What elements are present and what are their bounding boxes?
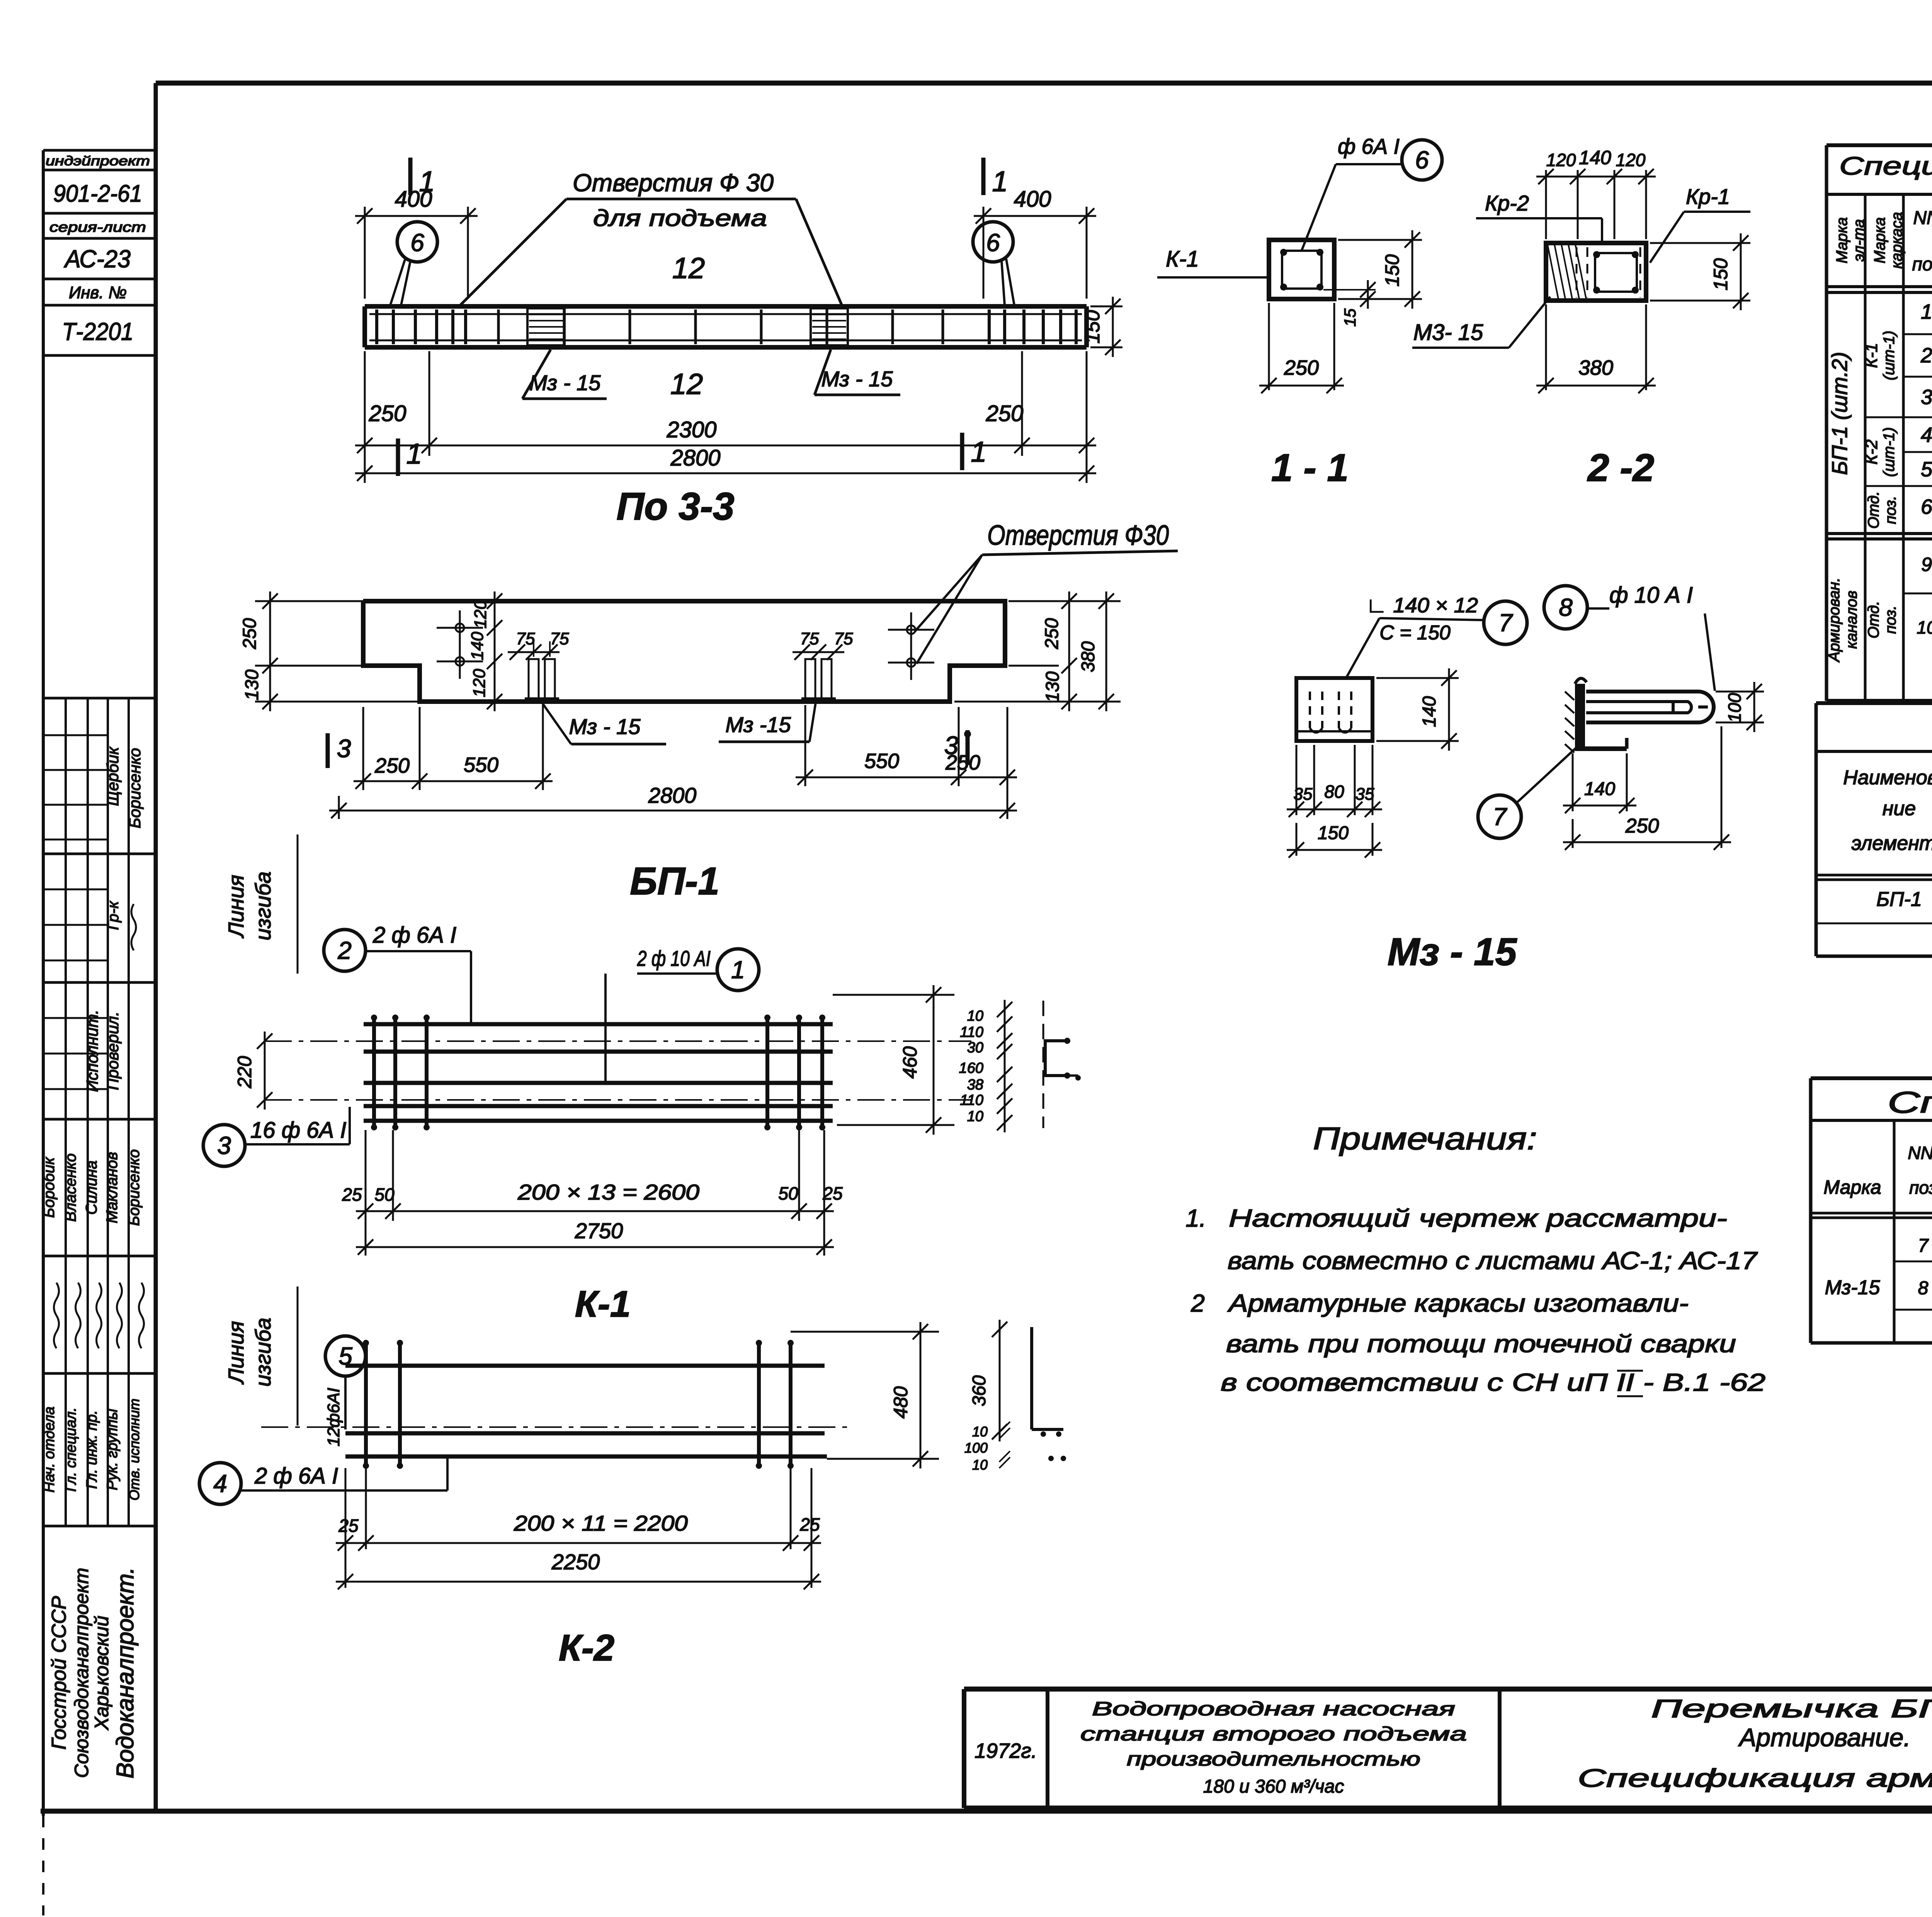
svg-text:Мз -15: Мз -15 [725, 712, 791, 737]
svg-text:380: 380 [1578, 356, 1613, 379]
svg-text:120: 120 [1546, 150, 1576, 170]
svg-text:2: 2 [337, 936, 352, 964]
svg-text:Линия: Линия [224, 875, 248, 938]
svg-text:поз: поз [1909, 1178, 1932, 1198]
svg-text:Гл. специал.: Гл. специал. [63, 1407, 79, 1492]
svg-text:1: 1 [1921, 300, 1932, 323]
svg-text:130: 130 [242, 670, 262, 700]
svg-text:поз.: поз. [1882, 605, 1899, 634]
svg-text:Спецификация арматуры на 1: Спецификация арматуры на 1 [1839, 151, 1932, 180]
svg-text:7: 7 [1918, 1236, 1929, 1256]
svg-text:75: 75 [550, 629, 569, 648]
svg-text:ф 6А I: ф 6А I [1338, 134, 1400, 158]
svg-text:Водопроводная насосная: Водопроводная насосная [1092, 1698, 1455, 1720]
svg-text:3: 3 [1921, 386, 1932, 409]
svg-text:производительностью: производительностью [1127, 1748, 1420, 1770]
svg-text:К-1: К-1 [1862, 343, 1881, 368]
svg-text:Настоящий чертеж рассматри-: Настоящий чертеж рассматри- [1229, 1204, 1727, 1232]
svg-text:75: 75 [800, 629, 819, 648]
svg-text:Т-2201: Т-2201 [62, 318, 134, 345]
svg-text:6: 6 [410, 229, 424, 257]
svg-text:2300: 2300 [666, 417, 716, 442]
svg-text:160: 160 [959, 1060, 983, 1076]
svg-text:Нач. отдела: Нач. отдела [41, 1407, 58, 1493]
svg-text:10: 10 [967, 1008, 983, 1024]
svg-text:Марка: Марка [1871, 217, 1888, 263]
svg-text:16 ф 6А I: 16 ф 6А I [250, 1118, 346, 1143]
svg-text:12: 12 [670, 368, 703, 401]
svg-text:5: 5 [1921, 458, 1932, 481]
svg-text:Инв. №: Инв. № [69, 283, 127, 302]
svg-text:БП-1 (шт.2): БП-1 (шт.2) [1827, 352, 1852, 475]
svg-text:БП-1: БП-1 [630, 860, 719, 903]
svg-text:Проверил.: Проверил. [104, 1011, 122, 1090]
svg-text:1: 1 [992, 165, 1008, 197]
svg-text:6: 6 [1921, 495, 1932, 518]
svg-text:120: 120 [471, 600, 490, 629]
svg-text:Мз - 15: Мз - 15 [569, 714, 641, 739]
svg-text:Силина: Силина [83, 1161, 100, 1215]
svg-text:100: 100 [1725, 693, 1745, 722]
svg-text:Перемычка БП-1.: Перемычка БП-1. [1651, 1694, 1932, 1723]
svg-text:2 -2: 2 -2 [1587, 446, 1654, 489]
svg-text:140: 140 [1419, 696, 1440, 727]
svg-text:250: 250 [374, 754, 410, 777]
svg-text:200 × 11 = 2200: 200 × 11 = 2200 [514, 1511, 688, 1535]
svg-text:серия-лист: серия-лист [49, 219, 146, 235]
svg-text:7: 7 [1493, 803, 1507, 831]
svg-text:Щербик: Щербик [104, 746, 122, 806]
svg-text:2750: 2750 [575, 1219, 623, 1243]
svg-text:Спецификация арматуры.: Спецификация арматуры. [1578, 1764, 1932, 1792]
svg-text:7: 7 [1498, 609, 1513, 637]
svg-text:120: 120 [1616, 150, 1646, 170]
svg-text:38: 38 [967, 1077, 983, 1093]
svg-text:Отд.: Отд. [1865, 601, 1882, 638]
svg-text:400: 400 [395, 187, 432, 212]
svg-text:Гр-к: Гр-к [105, 901, 122, 930]
svg-text:100: 100 [964, 1440, 988, 1456]
svg-text:35: 35 [1355, 785, 1374, 804]
svg-text:180 и 360 м³/час: 180 и 360 м³/час [1203, 1776, 1344, 1797]
svg-text:поз: поз [1912, 254, 1932, 275]
svg-text:110: 110 [960, 1024, 983, 1040]
svg-text:для подъема: для подъема [593, 205, 767, 231]
svg-text:Макланов: Макланов [104, 1152, 121, 1224]
svg-text:∟ 140 × 12: ∟ 140 × 12 [1366, 594, 1478, 617]
svg-text:Линия: Линия [224, 1321, 248, 1384]
svg-text:220: 220 [234, 1056, 255, 1089]
svg-text:станция второго подъема: станция второго подъема [1080, 1723, 1467, 1745]
svg-text:2800: 2800 [670, 445, 720, 471]
svg-text:400: 400 [1014, 187, 1051, 212]
svg-text:вать совместно с листами АС: вать совместно с листами АС-1; АС-17 [1228, 1247, 1758, 1275]
svg-text:Армирован.: Армирован. [1826, 578, 1843, 663]
svg-text:Примечания:: Примечания: [1313, 1121, 1537, 1156]
svg-text:Кр-1: Кр-1 [1686, 184, 1730, 209]
svg-text:2: 2 [1920, 344, 1932, 367]
svg-text:М3- 15: М3- 15 [1413, 320, 1483, 345]
svg-text:6: 6 [986, 229, 1000, 257]
svg-text:Водоканалпроект.: Водоканалпроект. [112, 1567, 139, 1779]
svg-text:поз.: поз. [1882, 496, 1899, 524]
svg-text:3: 3 [337, 734, 351, 763]
svg-text:в соответствии с СН иП II -: в соответствии с СН иП II - В.1 -62 [1221, 1368, 1765, 1396]
svg-text:Харьковский: Харьковский [91, 1616, 112, 1730]
svg-text:Отд.: Отд. [1865, 491, 1882, 529]
svg-text:10: 10 [967, 1108, 983, 1125]
svg-text:250: 250 [240, 618, 260, 649]
svg-text:75: 75 [516, 629, 535, 648]
svg-text:6: 6 [1415, 146, 1429, 174]
svg-text:Мз - 15: Мз - 15 [1388, 930, 1517, 974]
svg-text:К-2: К-2 [559, 1627, 614, 1669]
svg-text:2800: 2800 [648, 783, 697, 807]
svg-text:250: 250 [1284, 356, 1319, 379]
svg-text:1: 1 [971, 436, 986, 468]
svg-text:Артирование.: Артирование. [1738, 1723, 1911, 1752]
svg-text:2250: 2250 [551, 1550, 600, 1574]
svg-text:150: 150 [1082, 310, 1104, 344]
svg-text:9: 9 [1921, 554, 1932, 575]
svg-text:150: 150 [1318, 823, 1349, 843]
svg-text:Отверстия Ф30: Отверстия Ф30 [987, 520, 1169, 551]
svg-text:Мз - 15: Мз - 15 [821, 367, 893, 391]
svg-text:2 ф 6А I: 2 ф 6А I [254, 1463, 338, 1489]
svg-text:индэйпроект: индэйпроект [46, 154, 150, 168]
svg-text:1 - 1: 1 - 1 [1271, 446, 1349, 489]
svg-text:Арматурные каркасы изготавл: Арматурные каркасы изготавли- [1227, 1289, 1689, 1317]
svg-text:200 × 13 = 2600: 200 × 13 = 2600 [517, 1180, 699, 1204]
svg-text:ние: ние [1883, 797, 1916, 820]
svg-text:(шт-1): (шт-1) [1881, 427, 1898, 477]
svg-text:Марка: Марка [1833, 217, 1850, 263]
svg-text:NN:: NN: [1908, 1143, 1932, 1163]
svg-text:140: 140 [468, 632, 487, 660]
svg-text:360: 360 [969, 1375, 990, 1406]
svg-text:380: 380 [1078, 641, 1099, 672]
svg-text:Борисенко: Борисенко [126, 1149, 143, 1226]
svg-text:250: 250 [369, 401, 406, 426]
svg-text:Боробик: Боробик [41, 1157, 58, 1218]
svg-text:Госстрой СССР: Госстрой СССР [48, 1596, 70, 1750]
svg-text:140: 140 [1584, 779, 1615, 799]
svg-text:элемента: элемента [1852, 832, 1932, 855]
svg-text:25: 25 [342, 1185, 362, 1205]
svg-text:Отв. исполнит: Отв. исполнит [126, 1399, 142, 1501]
svg-text:460: 460 [899, 1046, 921, 1079]
svg-text:1: 1 [731, 956, 745, 984]
svg-text:Гл. инж. пр.: Гл. инж. пр. [84, 1410, 100, 1489]
svg-text:2 ф 10 АI: 2 ф 10 АI [637, 946, 711, 970]
svg-text:1972г.: 1972г. [975, 1739, 1037, 1762]
svg-text:120: 120 [470, 669, 489, 697]
svg-text:50: 50 [778, 1183, 798, 1203]
svg-text:35: 35 [1294, 785, 1313, 804]
svg-text:изгиба: изгиба [251, 1318, 275, 1387]
svg-text:250: 250 [945, 751, 980, 774]
svg-text:эл-та: эл-та [1850, 219, 1867, 262]
svg-text:550: 550 [864, 749, 899, 773]
svg-text:БП-1: БП-1 [1876, 888, 1922, 911]
svg-text:8: 8 [1918, 1278, 1929, 1298]
svg-text:NN: NN [1913, 208, 1932, 228]
svg-text:10: 10 [972, 1424, 988, 1439]
svg-text:К-1: К-1 [1166, 246, 1199, 272]
svg-text:250: 250 [986, 401, 1024, 426]
svg-text:130: 130 [1043, 671, 1063, 702]
svg-text:Мз - 15: Мз - 15 [529, 370, 601, 395]
svg-text:АС-23: АС-23 [63, 245, 131, 273]
svg-text:25: 25 [338, 1516, 359, 1536]
svg-text:25: 25 [822, 1183, 843, 1203]
svg-text:К-2: К-2 [1862, 439, 1881, 464]
svg-text:10: 10 [1917, 617, 1932, 637]
svg-text:75: 75 [834, 629, 853, 648]
svg-text:250: 250 [1042, 618, 1062, 649]
svg-text:80: 80 [1324, 782, 1344, 802]
svg-text:Спецификация металла: Спецификация металла [1888, 1085, 1932, 1119]
svg-text:вать при потощи точечной с: вать при потощи точечной сварки [1226, 1330, 1736, 1358]
svg-text:ф 10 А I: ф 10 А I [1609, 583, 1693, 608]
svg-text:140: 140 [1579, 147, 1611, 168]
svg-text:изгиба: изгиба [251, 872, 275, 941]
svg-text:По 3-3: По 3-3 [616, 485, 734, 528]
svg-text:30: 30 [967, 1040, 983, 1056]
svg-text:каркаса: каркаса [1888, 212, 1905, 269]
svg-text:12: 12 [672, 252, 705, 285]
svg-text:1.: 1. [1185, 1204, 1206, 1232]
svg-text:Исполнит.: Исполнит. [83, 1010, 101, 1092]
svg-text:(шт-1): (шт-1) [1881, 331, 1898, 381]
svg-text:Мз-15: Мз-15 [1825, 1276, 1881, 1299]
svg-text:Марка: Марка [1823, 1176, 1881, 1198]
svg-text:550: 550 [464, 753, 498, 777]
svg-text:10: 10 [972, 1457, 988, 1473]
svg-text:110: 110 [960, 1092, 983, 1108]
svg-text:8: 8 [1559, 593, 1573, 621]
svg-text:Союзводоканалпроект: Союзводоканалпроект [71, 1568, 92, 1778]
svg-text:Рук. группы: Рук. группы [104, 1409, 121, 1490]
svg-text:4: 4 [213, 1470, 227, 1497]
svg-text:2: 2 [1190, 1289, 1205, 1317]
svg-text:3: 3 [217, 1132, 231, 1159]
svg-text:каналов: каналов [1843, 591, 1860, 649]
svg-text:С = 150: С = 150 [1379, 622, 1451, 644]
svg-text:Власенко: Власенко [62, 1154, 79, 1222]
svg-text:15: 15 [1341, 308, 1359, 326]
svg-text:25: 25 [799, 1514, 820, 1535]
svg-text:Кр-2: Кр-2 [1485, 191, 1529, 215]
svg-text:Отверстия Ф 30: Отверстия Ф 30 [573, 169, 774, 197]
svg-text:К-1: К-1 [575, 1283, 631, 1325]
svg-text:Наименова-: Наименова- [1843, 766, 1932, 789]
svg-text:50: 50 [374, 1185, 395, 1205]
svg-text:1: 1 [406, 438, 422, 470]
svg-text:150: 150 [1381, 254, 1403, 287]
svg-text:Борисенко: Борисенко [126, 748, 144, 828]
svg-text:250: 250 [1625, 815, 1659, 837]
svg-text:12ф6АI: 12ф6АI [324, 1388, 343, 1446]
svg-text:2 ф 6А I: 2 ф 6А I [372, 923, 456, 948]
svg-text:4: 4 [1921, 423, 1932, 447]
svg-text:150: 150 [1710, 258, 1731, 291]
svg-text:901-2-61: 901-2-61 [53, 180, 142, 207]
svg-text:480: 480 [890, 1386, 912, 1419]
